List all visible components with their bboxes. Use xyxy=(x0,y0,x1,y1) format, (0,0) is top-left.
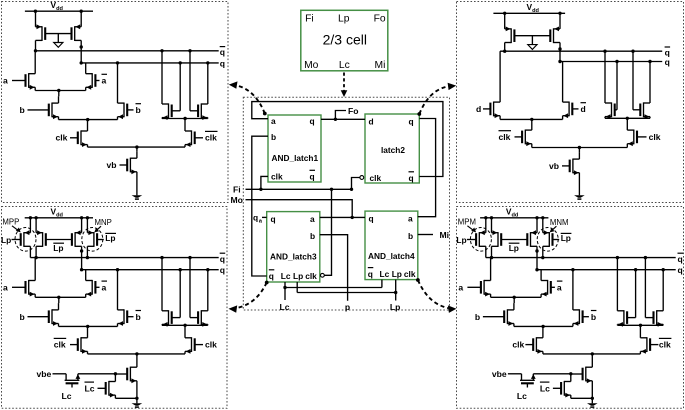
svg-text:a: a xyxy=(408,213,413,223)
svg-text:a: a xyxy=(271,116,276,126)
latch2 clk bubble xyxy=(360,176,364,180)
AND_latch4 pin clk xyxy=(404,269,416,279)
AND_latch1 pin clk xyxy=(271,172,283,182)
label Lc (center bottom) xyxy=(280,302,290,312)
dashed arrow to top-left cell xyxy=(229,81,267,115)
node qbar line (top-right) xyxy=(500,50,662,53)
label Lpbar gate of MNP (bottom-left) xyxy=(97,233,116,243)
svg-text:q: q xyxy=(369,213,374,223)
label dbar (top-right) xyxy=(581,103,587,114)
svg-text:q: q xyxy=(269,271,274,281)
label clk (top-left) xyxy=(56,133,68,143)
label qbar (top-right) xyxy=(665,47,671,58)
svg-text:MNM: MNM xyxy=(550,218,569,227)
svg-text:a: a xyxy=(3,283,8,293)
svg-text:Mi: Mi xyxy=(375,60,386,71)
cross-coupled left transistor (bottom-right) xyxy=(617,258,635,327)
wire a3 to q4 xyxy=(320,216,365,219)
label clkbar left (bottom-left) xyxy=(54,338,66,349)
label bbar (bottom-right) xyxy=(591,311,597,322)
node q line (bottom-right) xyxy=(535,268,675,271)
transistor vb (top-left) xyxy=(120,152,137,196)
transistor clkbar (top-right) xyxy=(515,119,532,147)
label Fi (cell) xyxy=(305,13,314,24)
svg-text:dd: dd xyxy=(56,6,63,12)
transistor abar (bottom-right) xyxy=(541,270,555,298)
cross-coupled source rail (top-right) xyxy=(605,117,650,120)
svg-text:d: d xyxy=(369,116,374,126)
cross-coupled right transistor (bottom-right) xyxy=(645,258,663,327)
svg-text:vbe: vbe xyxy=(37,369,52,379)
label abar (bottom-left) xyxy=(102,281,108,292)
PMOS pair left Lpbar (bottom-right) xyxy=(492,218,502,258)
dashed arrow Lc down from cell xyxy=(341,73,348,98)
wire b3 to p xyxy=(320,235,348,301)
Vdd rail (top-left) xyxy=(25,10,93,13)
AND_latch4 pin b xyxy=(408,231,413,241)
Vdd rail (bottom-right) xyxy=(480,216,548,219)
PMOS gate bias line + triangle (top-right) xyxy=(514,36,550,50)
svg-text:b: b xyxy=(20,105,25,115)
label vb (top-left) xyxy=(107,160,117,170)
PMOS load right (top-right) xyxy=(550,13,561,61)
label 2/3 cell xyxy=(323,32,367,48)
svg-text:Lp: Lp xyxy=(456,235,466,245)
transistor a (top-left) xyxy=(12,51,35,91)
label Lp gate of MPP (bottom-left) xyxy=(1,235,21,245)
cross-coupled source rail (bottom-left) xyxy=(162,324,208,327)
ground rail (bottom-right) xyxy=(571,397,594,400)
svg-text:b: b xyxy=(271,132,276,142)
AND_latch3 pin q xyxy=(271,214,276,224)
svg-text:Lp: Lp xyxy=(1,235,11,245)
svg-text:q: q xyxy=(253,213,258,223)
center block diagram dashed border xyxy=(243,97,449,310)
svg-text:clk: clk xyxy=(499,132,511,142)
label clk left (bottom-right) xyxy=(512,340,524,350)
clk stage tail rail (bottom-right) xyxy=(543,352,641,367)
svg-text:b: b xyxy=(475,312,480,322)
svg-text:Lc: Lc xyxy=(85,383,95,393)
svg-text:Lc: Lc xyxy=(61,391,71,401)
label a (bottom-right) xyxy=(458,283,463,293)
AND_latch4 pin qbar xyxy=(368,268,374,279)
svg-text:MPM: MPM xyxy=(458,218,476,227)
svg-text:q: q xyxy=(409,116,414,126)
transistor a (bottom-left) xyxy=(12,258,35,298)
Vdd rail (bottom-left) xyxy=(25,216,93,219)
label q (top-left) xyxy=(220,58,225,68)
node qa stub xyxy=(262,216,267,218)
label bbar (bottom-left) xyxy=(136,311,142,322)
b-pair source rail (bottom-right) xyxy=(514,325,573,328)
ground rail (bottom-left) xyxy=(115,397,138,400)
AND_latch1 pin q xyxy=(310,116,315,126)
label abar (bottom-right) xyxy=(557,281,563,292)
dashed ellipse around MNP (bottom-left) xyxy=(82,228,103,252)
node Lp net xyxy=(297,280,397,301)
svg-text:q: q xyxy=(368,269,373,279)
dashed ellipse around MNM (bottom-right) xyxy=(537,228,558,252)
PMOS load right (top-left) xyxy=(72,11,83,63)
svg-text:b: b xyxy=(136,312,141,322)
tail mirror transistor (bottom-left) xyxy=(115,367,136,399)
label clkbar (top-left) xyxy=(205,131,218,142)
svg-text:Fo: Fo xyxy=(374,13,386,24)
label a (bottom-left) xyxy=(3,283,8,293)
AND_latch3 clk bubble xyxy=(321,273,325,277)
svg-text:q: q xyxy=(678,265,683,275)
svg-text:a: a xyxy=(102,76,107,86)
wire Fi to clk2 bubble xyxy=(352,178,361,190)
ground earth (bottom-right) xyxy=(587,398,598,407)
latch2 pin qbar xyxy=(409,172,415,183)
label MPP (bottom-left) xyxy=(2,218,20,233)
label Fo (cell) xyxy=(374,13,386,24)
label b (top-left) xyxy=(20,105,25,115)
AND_latch3 pin b xyxy=(310,231,315,241)
svg-text:d: d xyxy=(476,104,481,114)
transistor clk-right (bottom-right) xyxy=(640,325,658,354)
label clk right (bottom-left) xyxy=(205,340,217,350)
svg-text:a: a xyxy=(102,283,107,293)
label vbe (bottom-left) xyxy=(37,369,52,379)
label Lc (cell) xyxy=(339,60,350,71)
label clkbar right (bottom-right) xyxy=(659,338,672,349)
label b (bottom-left) xyxy=(20,312,25,322)
svg-text:clk: clk xyxy=(370,173,382,183)
label Fi xyxy=(233,185,241,195)
Lpbar gate line + label (bottom-right) xyxy=(501,240,527,253)
transistor b (top-left) xyxy=(28,96,59,119)
svg-text:Lp: Lp xyxy=(53,243,63,253)
ground (top-left) xyxy=(132,195,143,199)
svg-text:clk: clk xyxy=(512,340,524,350)
bottom-left latch cell dashed border xyxy=(2,207,228,409)
transistor abar (bottom-left) xyxy=(86,270,100,298)
svg-text:b: b xyxy=(591,312,596,322)
svg-text:q: q xyxy=(220,254,225,264)
ground (top-right) xyxy=(574,195,585,199)
label q (bottom-left) xyxy=(220,265,225,275)
svg-text:clk: clk xyxy=(56,133,68,143)
svg-text:a: a xyxy=(310,214,315,224)
svg-text:clk: clk xyxy=(205,340,217,350)
svg-text:vbe: vbe xyxy=(492,369,507,379)
label q (bottom-right) xyxy=(678,265,683,275)
AND_latch3 pin Lc xyxy=(281,271,291,281)
clk stage tail rail (top-left) xyxy=(88,145,186,151)
vbe wire (bottom-right) xyxy=(508,374,522,381)
label Lc gate (bottom-right) xyxy=(517,391,527,401)
node q line (bottom-left) xyxy=(80,268,219,271)
AND_latch4 pin a xyxy=(408,213,413,223)
svg-text:Fi: Fi xyxy=(305,13,314,24)
node qbar line (bottom-left) xyxy=(30,256,218,259)
label clk (top-right) xyxy=(649,132,661,142)
svg-text:q: q xyxy=(220,58,225,68)
node Lc net xyxy=(283,280,382,300)
cross-coupled left transistor (top-right) xyxy=(605,51,617,119)
transistor clk-left (bottom-left) xyxy=(70,326,88,354)
top-left latch cell dashed border xyxy=(2,2,229,203)
svg-text:Fi: Fi xyxy=(233,185,241,195)
Vdd label (top-left) xyxy=(51,0,64,12)
label p xyxy=(345,302,350,312)
label a (top-left) xyxy=(3,76,8,86)
latch2 name xyxy=(381,145,405,155)
svg-text:Lp: Lp xyxy=(390,302,401,312)
label vbe (bottom-right) xyxy=(492,369,507,379)
AND_latch4 pin Lc xyxy=(380,269,390,279)
svg-text:MPP: MPP xyxy=(2,218,19,227)
label Mi (cell) xyxy=(375,60,386,71)
svg-text:Lp: Lp xyxy=(105,233,115,243)
transistor abar (top-left) xyxy=(86,63,100,91)
svg-text:AND_latch1: AND_latch1 xyxy=(272,153,319,163)
Lc mos-cap transistor (bottom-left) xyxy=(65,374,81,388)
Vdd label (bottom-left) xyxy=(51,207,64,219)
svg-text:Mo: Mo xyxy=(304,60,319,71)
svg-text:q: q xyxy=(665,57,670,67)
svg-text:Fo: Fo xyxy=(348,106,359,116)
AND_latch3 pin qbar xyxy=(269,270,275,281)
svg-text:Lc: Lc xyxy=(280,302,290,312)
wire b1 to qbar3 xyxy=(252,136,268,276)
svg-text:AND_latch3: AND_latch3 xyxy=(270,252,317,262)
svg-text:clk: clk xyxy=(649,132,661,142)
dashed ellipse around MPM (bottom-right) xyxy=(470,228,491,252)
clk stage tail rail (bottom-left) xyxy=(88,352,186,367)
svg-text:2/3 cell: 2/3 cell xyxy=(323,32,367,48)
svg-text:Mi: Mi xyxy=(440,230,450,240)
transistor clk-left (bottom-right) xyxy=(525,326,543,354)
cross-coupled left transistor (top-left) xyxy=(162,51,180,120)
transistor MPM (bottom-right) xyxy=(476,218,486,258)
label qbar (bottom-left) xyxy=(220,253,226,264)
cross-coupled right transistor (top-left) xyxy=(190,51,208,120)
node Mo line xyxy=(246,200,353,218)
svg-text:a: a xyxy=(557,283,562,293)
transistor bbar (bottom-left) xyxy=(118,270,134,327)
label Lpbar gate of MNM (bottom-right) xyxy=(553,233,572,243)
label Lcbar (bottom-left) xyxy=(85,382,95,393)
transistor clkbar (top-left) xyxy=(185,119,203,148)
AND_latch3 pin a xyxy=(310,214,315,224)
latch2 pin clk xyxy=(370,173,382,183)
cross-coupled source rail (bottom-right) xyxy=(617,324,663,327)
svg-text:q: q xyxy=(409,173,414,183)
svg-text:clk: clk xyxy=(305,271,317,281)
AND_latch4 pin q xyxy=(369,213,374,223)
label b (bottom-right) xyxy=(475,312,480,322)
top-right latch cell dashed border xyxy=(457,2,684,203)
label Lc gate (bottom-left) xyxy=(61,391,71,401)
a-pair source rail (bottom-left) xyxy=(35,296,85,304)
node q line (top-right) xyxy=(558,60,662,63)
svg-text:clk: clk xyxy=(54,340,66,350)
svg-text:b: b xyxy=(408,231,413,241)
PMOS gate bias line + triangle (top-left) xyxy=(45,34,71,48)
svg-text:q: q xyxy=(310,172,315,182)
cross-coupled left transistor (bottom-left) xyxy=(162,258,180,327)
transistor b (bottom-left) xyxy=(28,303,59,326)
transistor bbar (bottom-right) xyxy=(573,270,589,327)
wire a1 to qbar2 outer loop xyxy=(252,102,443,177)
transistor MNM (bottom-right) xyxy=(543,218,553,258)
latch2 box xyxy=(365,114,419,183)
transistor bbar (top-left) xyxy=(118,63,134,120)
svg-text:Lc: Lc xyxy=(540,383,550,393)
svg-text:Lc: Lc xyxy=(281,271,291,281)
cross-coupled right transistor (top-right) xyxy=(633,51,650,119)
AND_latch1 pin a xyxy=(271,116,276,126)
svg-text:a: a xyxy=(3,76,8,86)
label abar (top-left) xyxy=(102,74,108,85)
label Lp (cell) xyxy=(338,13,350,24)
transistor clk-right (bottom-left) xyxy=(185,325,203,354)
Vdd label (bottom-right) xyxy=(506,207,519,219)
svg-text:Lp: Lp xyxy=(561,233,571,243)
label Mo (cell) xyxy=(304,60,319,71)
svg-text:clk: clk xyxy=(659,340,671,350)
AND_latch4 box xyxy=(365,211,418,280)
label clkbar (top-right) xyxy=(499,131,512,142)
label qbar (top-left) xyxy=(220,47,226,58)
wire Fi to clk3 bubble xyxy=(324,189,331,275)
bottom-right latch cell dashed border xyxy=(457,207,684,409)
svg-text:a: a xyxy=(458,283,463,293)
svg-text:q: q xyxy=(271,214,276,224)
wire b4 to Mi xyxy=(418,234,433,236)
Vdd label (top-right) xyxy=(527,2,540,14)
svg-text:q: q xyxy=(678,254,683,264)
svg-text:clk: clk xyxy=(271,172,283,182)
svg-text:b: b xyxy=(310,231,315,241)
PMOS load left (top-right) xyxy=(505,13,515,51)
AND_latch3 pin clk xyxy=(305,271,317,281)
label Fo xyxy=(348,106,359,116)
svg-text:MNP: MNP xyxy=(95,218,112,227)
node Fi line xyxy=(246,188,354,191)
svg-text:Lp: Lp xyxy=(392,269,402,279)
AND_latch1 name xyxy=(272,153,319,163)
label qbar (bottom-right) xyxy=(678,253,684,264)
transistor MNP (bottom-left) xyxy=(87,218,97,258)
tail mirror transistor (bottom-right) xyxy=(571,367,593,399)
vbe wire (bottom-left) xyxy=(53,374,67,381)
latch2 pin d xyxy=(369,116,374,126)
transistor MPP (bottom-left) xyxy=(21,218,31,258)
wire q1 to d2 xyxy=(321,118,365,121)
transistor Lcbar (bottom-right) xyxy=(553,374,571,399)
a-pair source rail (top-left) xyxy=(35,89,85,97)
dashed arrow to bottom-right cell xyxy=(416,278,456,313)
cross-coupled right transistor (bottom-left) xyxy=(190,258,208,327)
svg-text:d: d xyxy=(581,104,586,114)
svg-text:p: p xyxy=(345,302,350,312)
Vdd rail (top-right) xyxy=(493,12,565,15)
AND_latch1 box xyxy=(268,115,321,182)
svg-text:latch2: latch2 xyxy=(381,145,405,155)
PMOS pair left Lpbar (bottom-left) xyxy=(36,218,46,258)
label MNM (bottom-right) xyxy=(550,218,569,232)
label Lp (center bottom) xyxy=(390,302,401,312)
svg-text:clk: clk xyxy=(205,133,217,143)
label q (top-right) xyxy=(665,57,670,67)
AND_latch3 box xyxy=(267,212,320,282)
svg-text:q: q xyxy=(220,47,225,57)
label bbar (top-left) xyxy=(136,104,142,115)
PMOS pair right Lpbar (bottom-left) xyxy=(72,218,83,270)
node qbar line (top-left) xyxy=(34,49,219,52)
svg-text:Lc: Lc xyxy=(380,269,390,279)
svg-text:Lp: Lp xyxy=(338,13,350,24)
wire Fi to clk1 xyxy=(261,176,268,189)
wire q2 to a4 xyxy=(418,119,436,217)
AND_latch4 name xyxy=(368,251,415,261)
vbe node wire to mirror gate (bottom-right) xyxy=(533,372,572,375)
transistor vb (top-right) xyxy=(562,152,579,195)
label vb (top-right) xyxy=(549,161,559,171)
svg-text:b: b xyxy=(20,312,25,322)
node qbar line (bottom-right) xyxy=(486,256,676,259)
svg-text:Lp: Lp xyxy=(509,243,519,253)
2/3 cell block border xyxy=(301,10,388,71)
Lpbar gate line + label (bottom-left) xyxy=(46,240,72,253)
dashed arrow to top-right cell xyxy=(417,83,456,116)
AND_latch1 pin qbar xyxy=(310,170,316,181)
label Mo xyxy=(231,195,243,205)
node q line (top-left) xyxy=(80,61,219,64)
vbe node wire to mirror gate (bottom-left) xyxy=(78,372,117,375)
label d (top-right) xyxy=(476,104,481,114)
svg-text:Lc: Lc xyxy=(339,60,350,71)
label Mi (center) xyxy=(440,230,450,240)
transistor clk (top-left) xyxy=(70,120,88,148)
svg-text:dd: dd xyxy=(512,212,519,218)
svg-text:Lc: Lc xyxy=(517,391,527,401)
Lc mos-cap transistor (bottom-right) xyxy=(520,374,536,388)
transistor dbar (top-right) xyxy=(563,62,579,120)
AND_latch4 pin Lp xyxy=(392,269,402,279)
cross-coupled source rail (top-left) xyxy=(162,117,208,120)
svg-text:Lp: Lp xyxy=(293,271,303,281)
transistor b (bottom-right) xyxy=(483,303,514,326)
AND_latch3 pin Lp xyxy=(293,271,303,281)
dashed ellipse around MPP (bottom-left) xyxy=(15,228,36,252)
svg-text:dd: dd xyxy=(532,8,539,14)
label MNP (bottom-left) xyxy=(94,218,112,232)
node Fo stub xyxy=(335,111,346,120)
PMOS load left (top-left) xyxy=(36,11,46,51)
svg-text:clk: clk xyxy=(404,269,416,279)
svg-text:dd: dd xyxy=(56,212,63,218)
transistor Lcbar (bottom-left) xyxy=(98,374,116,399)
latch2 pin q xyxy=(409,116,414,126)
transistor clk (top-right) xyxy=(627,118,646,147)
d-pair source rail (top-right) xyxy=(500,118,562,121)
ground earth (bottom-left) xyxy=(132,398,143,407)
svg-text:vb: vb xyxy=(549,161,559,171)
b-pair source rail (bottom-left) xyxy=(59,325,118,328)
label MPM (bottom-right) xyxy=(458,218,476,233)
label Lcbar (bottom-right) xyxy=(540,382,550,393)
dashed arrow to bottom-left cell xyxy=(229,281,269,313)
AND_latch3 name xyxy=(270,252,317,262)
svg-text:Mo: Mo xyxy=(231,195,243,205)
label qa xyxy=(253,213,263,225)
